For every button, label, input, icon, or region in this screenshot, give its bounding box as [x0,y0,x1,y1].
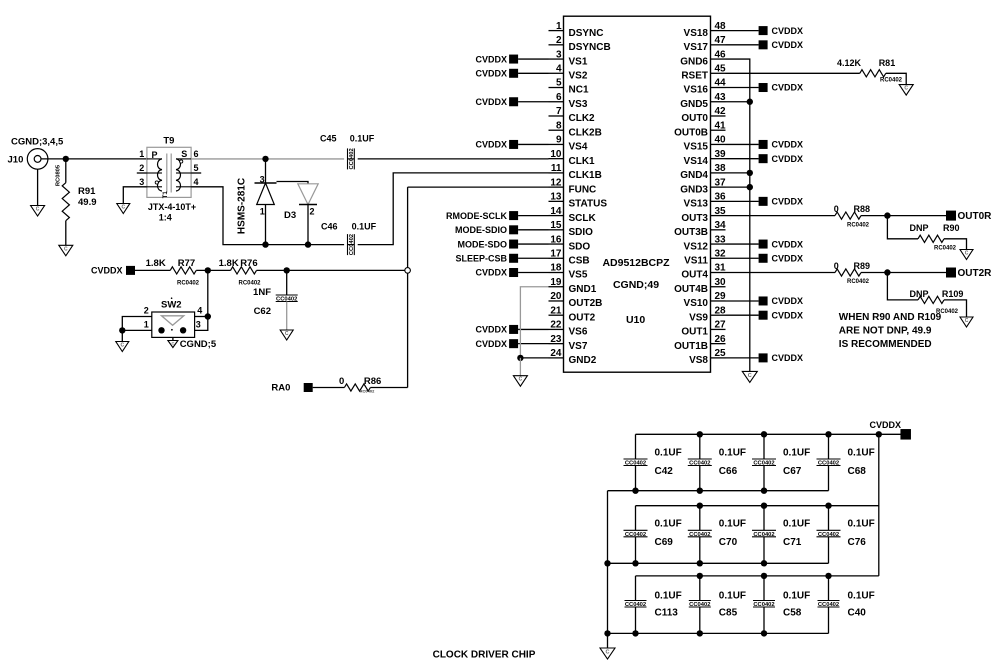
svg-text:0.1UF: 0.1UF [719,591,746,602]
svg-text:2: 2 [310,207,315,217]
svg-text:R76: R76 [240,258,257,269]
resistor R109 DNP RC0402 [887,273,966,317]
svg-text:VS8: VS8 [689,355,708,366]
ground (R81) [899,85,913,96]
pin 24 GND2 [549,348,597,366]
node open circle FUNC net [405,268,411,274]
pin 3 VS1 [549,49,588,67]
svg-text:DSYNC: DSYNC [569,28,604,39]
pin 40 VS15 [684,135,727,153]
svg-text:R91: R91 [78,186,96,197]
resistor R81 4.12K RC0402 [726,58,907,84]
svg-text:4: 4 [194,177,199,187]
terminal CVDDX (pin 40) [726,140,804,150]
capacitor C67 0.1UF [752,434,810,490]
svg-text:47: 47 [715,35,727,46]
svg-text:41: 41 [715,120,727,131]
pin 27 OUT1 [681,320,726,338]
svg-text:CSB: CSB [569,255,590,266]
capacitor C42 0.1UF [624,434,682,490]
diode D3 HSMS-281C [237,159,319,245]
svg-text:0.1UF: 0.1UF [352,221,377,231]
svg-text:VS10: VS10 [684,298,709,309]
wire R77 to R76 [196,269,230,271]
terminal MODE-SDO (pin 16) [458,239,549,249]
wire row3 bottom rail [608,632,829,634]
svg-text:C: C [965,251,969,257]
pin 25 VS8 [689,348,726,366]
svg-text:4.12K: 4.12K [837,58,862,68]
resistor R88 0 ohm RC0402 [726,204,947,228]
svg-text:C113: C113 [655,608,679,619]
svg-text:C: C [171,341,174,346]
node junction top rail C66 [697,431,703,437]
terminal CVDDX (pin 4) [475,68,548,78]
node junction bus row2 [604,560,610,566]
svg-text:27: 27 [715,320,727,331]
svg-text:CLK1: CLK1 [569,156,596,167]
ground (T9 pin3) [117,204,130,214]
svg-text:C76: C76 [848,537,867,548]
wire row3 top rail [636,575,879,577]
svg-text:RA0: RA0 [271,383,290,394]
capacitor C62 1NF CC0402 [253,270,298,330]
svg-text:14: 14 [550,206,562,217]
svg-text:CVDDX: CVDDX [772,296,804,306]
svg-text:VS17: VS17 [684,42,709,53]
pin 41 OUT0B [674,120,726,138]
connector J10 [8,136,64,169]
svg-text:RC0402: RC0402 [880,77,903,83]
terminal CVDDX (pin 29) [726,296,804,306]
terminal CVDDX (pin 3) [475,54,548,64]
svg-text:1.8K: 1.8K [146,258,166,269]
svg-text:U10: U10 [626,314,645,326]
wire C46 to pin11 CLK1B [358,173,549,245]
svg-text:VS9: VS9 [689,312,708,323]
svg-text:C: C [36,207,40,213]
svg-text:C67: C67 [783,466,802,477]
svg-text:OUT1B: OUT1B [674,341,708,352]
node junction D3 pin1 on rail [262,241,268,247]
svg-text:40: 40 [715,135,727,146]
svg-text:CVDDX: CVDDX [475,140,507,150]
svg-text:35: 35 [715,206,727,217]
pin 37 GND3 [680,177,726,195]
svg-text:0.1UF: 0.1UF [848,519,875,530]
svg-text:CVDDX: CVDDX [91,266,123,276]
svg-text:MODE-SDIO: MODE-SDIO [455,225,507,235]
terminal CVDDX (pin 48) [726,26,804,36]
svg-text:1:4: 1:4 [159,212,172,222]
svg-text:39: 39 [715,149,727,160]
svg-text:RC0402: RC0402 [360,389,375,394]
wire row2 bottom rail [608,562,829,564]
svg-text:SLEEP-CSB: SLEEP-CSB [455,253,507,263]
svg-text:19: 19 [550,277,562,288]
node junction row1 bottom col3 [761,488,767,494]
pin 4 VS2 [549,63,588,81]
svg-text:RMODE-SCLK: RMODE-SCLK [446,211,507,221]
svg-text:42: 42 [715,106,727,117]
pin 34 OUT3B [674,220,726,238]
svg-text:1.8K: 1.8K [219,258,239,269]
wire CVDDX top rail (row1) [636,433,901,435]
svg-text:CVDDX: CVDDX [772,353,804,363]
svg-text:OUT3: OUT3 [681,213,708,224]
svg-text:13: 13 [550,192,562,203]
pin 29 VS10 [684,291,727,309]
ground (GND2) [513,358,527,386]
svg-text:T1: T1 [162,191,169,199]
svg-text:C62: C62 [254,306,271,317]
terminal CVDDX (pin 47) [726,40,804,50]
svg-text:R89: R89 [854,261,871,271]
svg-text:6: 6 [556,92,562,103]
svg-text:2: 2 [144,305,149,315]
svg-text:VS11: VS11 [684,255,708,266]
switch SW2 [144,297,203,337]
svg-text:C66: C66 [719,466,738,477]
svg-text:28: 28 [715,305,727,316]
pin 8 CLK2B [549,120,602,138]
pin 28 VS9 [689,305,726,323]
svg-text:0: 0 [339,376,344,387]
svg-text:VS1: VS1 [569,56,588,67]
svg-text:R90: R90 [943,223,960,233]
svg-text:OUT1: OUT1 [681,327,708,338]
pin 33 VS12 [684,234,727,252]
svg-text:11: 11 [551,163,562,174]
capacitor C66 0.1UF [688,434,746,490]
capacitor C70 0.1UF [688,506,746,564]
wire J10 to T9 pin1 [41,158,147,160]
terminal MODE-SDIO (pin 15) [455,225,549,235]
svg-text:CLK2: CLK2 [569,113,596,124]
svg-text:GND5: GND5 [680,99,708,110]
terminal OUT2R [946,268,992,280]
svg-text:MODE-SDO: MODE-SDO [458,239,508,249]
terminal SLEEP-CSB (pin 17) [455,253,548,263]
svg-text:C: C [904,86,908,92]
svg-text:J10: J10 [8,154,24,165]
svg-text:22: 22 [550,320,562,331]
svg-text:VS18: VS18 [684,28,709,39]
svg-text:CGND;5: CGND;5 [180,339,217,350]
svg-text:5: 5 [556,78,562,89]
svg-text:STATUS: STATUS [569,199,608,210]
svg-text:OUT0R: OUT0R [958,211,993,222]
svg-text:0.1UF: 0.1UF [350,134,375,144]
svg-text:P: P [152,150,158,160]
pin 20 OUT2B [549,291,603,309]
svg-text:CVDDX: CVDDX [772,253,804,263]
svg-text:21: 21 [550,305,562,316]
node junction R77/R76/SW2 [205,267,211,273]
svg-text:6: 6 [194,149,199,159]
svg-text:16: 16 [550,234,562,245]
resistor R89 0 ohm RC0402 [726,261,947,285]
svg-text:34: 34 [715,220,727,231]
node junction row2 top col4 [825,503,831,509]
svg-text:30: 30 [715,277,727,288]
wire row2 top rail [636,505,879,507]
svg-text:VS13: VS13 [684,199,709,210]
pin 17 CSB [549,248,590,266]
pin 47 VS17 [684,35,727,53]
svg-text:24: 24 [550,348,562,359]
wire row1 bottom rail [608,490,829,492]
svg-text:R86: R86 [364,376,381,387]
svg-text:0.1UF: 0.1UF [655,448,682,459]
svg-text:AD9512BCPZ: AD9512BCPZ [602,257,670,269]
svg-text:WHEN R90 AND R109: WHEN R90 AND R109 [839,312,942,323]
pin 14 SCLK [549,206,597,224]
svg-text:1: 1 [144,319,149,329]
capacitor C113 0.1UF [625,576,682,634]
svg-text:C46: C46 [321,221,338,231]
svg-text:49.9: 49.9 [78,197,97,208]
svg-text:3: 3 [139,177,144,187]
svg-text:17: 17 [550,248,562,259]
pin 36 VS13 [684,192,727,210]
pin 38 GND4 [680,163,726,181]
wire R76 to FUNC node [257,269,405,271]
svg-text:0.1UF: 0.1UF [783,591,810,602]
ground (cap bank) [600,648,615,659]
capacitor C40 0.1UF [818,576,875,634]
resistor R77 1.8K RC0402 [146,258,200,287]
node junction OUT2R [884,269,890,275]
svg-text:CGND;3,4,5: CGND;3,4,5 [11,136,64,147]
svg-text:RSET: RSET [681,70,708,81]
svg-text:1NF: 1NF [253,287,271,298]
wire SW2 pins 4,3 to R77/R76 node [195,270,208,330]
svg-text:10: 10 [550,149,562,160]
svg-text:VS4: VS4 [569,142,588,153]
svg-text:CVDDX: CVDDX [869,420,901,430]
terminal RA0 [271,383,312,394]
svg-text:8: 8 [556,120,562,131]
svg-text:23: 23 [550,334,562,345]
wire CVDDX to R77 [135,269,170,271]
svg-text:T9: T9 [163,136,174,147]
node junction CVDDX feed [876,431,882,437]
wire pin12 FUNC vertical [408,187,549,387]
svg-text:VS12: VS12 [684,241,709,252]
pin 18 VS5 [549,263,588,281]
pin 12 FUNC [549,177,597,195]
svg-text:NC1: NC1 [569,85,589,96]
pin 30 OUT4B [674,277,726,295]
svg-text:RC0402: RC0402 [847,222,870,228]
node junction C62 tap [284,267,290,273]
terminal CVDDX (pin 44) [726,83,804,93]
ground (R109) [960,317,973,327]
svg-text:CLK2B: CLK2B [569,127,602,138]
svg-text:SDO: SDO [569,241,591,252]
capacitor C45 0.1UF [320,134,375,170]
svg-text:CVDDX: CVDDX [475,54,507,64]
svg-text:C69: C69 [655,537,674,548]
terminal CVDDX (pin 33) [726,239,804,249]
svg-text:C: C [519,377,523,383]
svg-text:R109: R109 [942,289,964,299]
svg-text:26: 26 [715,334,727,345]
svg-text:ARE NOT DNP, 49.9: ARE NOT DNP, 49.9 [839,326,932,337]
node junction row2 top col2 [697,503,703,509]
node junction SW2 right [205,313,211,319]
node junction top rail C68 [825,431,831,437]
svg-text:0.1UF: 0.1UF [783,519,810,530]
node junction row3 bottom col1 [632,630,638,636]
svg-text:CVDDX: CVDDX [475,325,507,335]
svg-text:CGND;49: CGND;49 [613,279,659,291]
svg-text:0.1UF: 0.1UF [655,591,682,602]
svg-text:43: 43 [715,92,727,103]
svg-text:2: 2 [556,35,562,46]
pin 11 CLK1B [549,163,602,181]
svg-text:VS2: VS2 [569,70,588,81]
svg-text:2: 2 [139,163,144,173]
svg-text:31: 31 [715,263,727,274]
ground (GND bus) [742,371,757,382]
svg-text:25: 25 [715,348,727,359]
svg-text:0.1UF: 0.1UF [655,519,682,530]
svg-text:FUNC: FUNC [569,184,597,195]
svg-text:SDIO: SDIO [569,227,594,238]
terminal CVDDX (pin 36) [726,197,804,207]
svg-text:0.1UF: 0.1UF [719,519,746,530]
note text DNP recommendation [839,312,942,350]
terminal CVDDX (pin 25) [726,353,804,363]
svg-text:1: 1 [260,207,265,217]
svg-text:RC0402: RC0402 [847,279,870,285]
pin 22 VS6 [549,320,588,338]
svg-text:38: 38 [715,163,727,174]
svg-text:SCLK: SCLK [569,213,597,224]
pin 44 VS16 [684,78,727,96]
ground (R91) [59,245,73,256]
svg-text:CC0402: CC0402 [349,234,355,255]
svg-text:RC0402: RC0402 [238,280,261,286]
svg-text:DNP: DNP [909,289,928,299]
node junction bus row3 [604,630,610,636]
svg-text:CVDDX: CVDDX [772,140,804,150]
svg-text:7: 7 [556,106,562,117]
capacitor C69 0.1UF [624,506,682,564]
svg-text:4: 4 [197,305,202,315]
svg-text:C: C [285,331,289,337]
svg-text:0.1UF: 0.1UF [848,591,875,602]
wire T9 pin6 to C45 (secondary top) [191,158,344,160]
pin 42 OUT0 [681,106,726,124]
node junction top rail C67 [761,431,767,437]
svg-text:C45: C45 [320,134,337,144]
wire C45 to pin10 CLK1 [358,158,549,160]
pin 15 SDIO [549,220,594,238]
capacitor C68 0.1UF [817,434,875,490]
svg-text:C: C [120,343,124,349]
svg-text:R88: R88 [854,204,871,214]
ground (J10) [31,169,45,216]
pin 9 VS4 [549,135,588,153]
svg-text:HSMS-281C: HSMS-281C [237,178,248,234]
node junction row3 top col2 [697,573,703,579]
svg-text:GND3: GND3 [680,184,708,195]
node junction GND3 [747,184,753,190]
svg-text:C71: C71 [783,537,802,548]
svg-text:C68: C68 [848,466,867,477]
wire T9 pin4 to bottom rail [191,187,344,245]
node junction OUT0R [884,212,890,218]
svg-text:C: C [606,650,610,656]
svg-text:CLOCK DRIVER CHIP: CLOCK DRIVER CHIP [433,650,536,661]
pin 32 VS11 [684,248,726,266]
svg-text:VS7: VS7 [569,341,588,352]
svg-text:CC0402: CC0402 [349,148,355,169]
svg-text:OUT0B: OUT0B [674,127,708,138]
terminal CVDDX (R77 input) [91,266,135,276]
node junction row3 top col3 [761,573,767,579]
svg-text:CLK1B: CLK1B [569,170,602,181]
resistor R90 DNP RC0402 [887,216,966,252]
pin 21 OUT2 [549,305,596,323]
svg-text:VS5: VS5 [569,270,588,281]
ground (R90) [960,250,973,260]
terminal CVDDX (pin 9) [475,140,548,150]
node junction row2 bottom col3 [761,560,767,566]
pin 10 CLK1 [549,149,596,167]
svg-text:0.1UF: 0.1UF [719,448,746,459]
wire CVDDX vertical feed to rows 2,3 [878,434,880,576]
wire GND2 pin24 [520,357,548,359]
terminal CVDDX (pin 23) [475,339,548,349]
pin 5 NC1 [549,78,589,96]
ground (C62) [280,330,293,340]
svg-text:C40: C40 [848,608,867,619]
svg-text:IS RECOMMENDED: IS RECOMMENDED [839,339,932,350]
terminal RMODE-SCLK (pin 14) [446,211,549,221]
ground CGND;5 (SW2 common) [168,337,217,349]
node junction GND4 [747,170,753,176]
svg-text:RC0402: RC0402 [177,280,200,286]
svg-text:3: 3 [196,319,201,329]
svg-text:44: 44 [715,78,727,89]
svg-text:OUT3B: OUT3B [674,227,708,238]
svg-text:CVDDX: CVDDX [475,68,507,78]
node junction GND5 [747,99,753,105]
pin 35 OUT3 [681,206,726,224]
svg-text:0: 0 [834,261,839,271]
wire ground bus left [607,491,609,648]
svg-text:GND4: GND4 [680,170,708,181]
pin 2 DSYNCB [549,35,611,53]
svg-text:JTX-4-10T+: JTX-4-10T+ [148,202,196,212]
node junction row2 bottom col2 [697,560,703,566]
node junction row1 bottom col2 [697,488,703,494]
svg-text:RC0402: RC0402 [934,246,957,252]
node junction at D3 top [262,156,268,162]
terminal CVDDX (pin 39) [726,154,804,164]
pin 31 OUT4 [681,263,726,281]
svg-text:C: C [64,246,68,252]
svg-text:CVDDX: CVDDX [772,26,804,36]
svg-text:3: 3 [260,174,265,184]
capacitor C58 0.1UF [753,576,810,634]
svg-text:1: 1 [556,21,562,32]
node junction on input wire [63,156,69,162]
